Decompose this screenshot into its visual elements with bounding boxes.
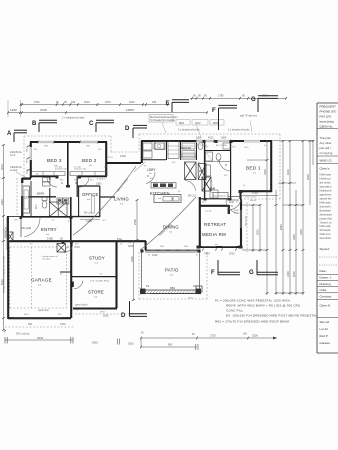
svg-text:3010: 3010 bbox=[0, 164, 4, 170]
svg-text:His/her pr: His/her pr bbox=[320, 177, 331, 181]
garage eave dashed bottom bbox=[5, 326, 75, 328]
svg-text:2016: 2016 bbox=[103, 315, 109, 318]
bottom dim left row line bbox=[5, 339, 74, 341]
eave dashed top right bbox=[139, 133, 280, 135]
svg-text:7404: 7404 bbox=[204, 253, 210, 256]
retreat corner door leaf bbox=[228, 196, 242, 198]
svg-text:DINING: DINING bbox=[163, 225, 179, 230]
svg-text:2134: 2134 bbox=[120, 154, 126, 158]
svg-text:add TV wire red: add TV wire red bbox=[240, 115, 258, 118]
svg-text:1560: 1560 bbox=[96, 183, 102, 186]
note leader lines bbox=[162, 123, 166, 134]
svg-text:4012: 4012 bbox=[195, 122, 201, 125]
title block top border bbox=[317, 102, 338, 104]
svg-text:WIR: WIR bbox=[209, 187, 216, 191]
svg-text:This plan: This plan bbox=[320, 136, 332, 140]
svg-text:WIND CL: WIND CL bbox=[320, 159, 333, 163]
svg-text:G: G bbox=[249, 270, 254, 276]
svg-text:WC: WC bbox=[199, 169, 205, 173]
right dim top ticks bbox=[266, 140, 269, 142]
svg-text:5.980: 5.980 bbox=[47, 238, 54, 241]
top dimension row 2 ticks bbox=[7, 111, 9, 114]
store eave dashed bottom bbox=[75, 313, 145, 315]
svg-text:I/We ackn: I/We ackn bbox=[320, 201, 332, 205]
svg-text:Date:: Date: bbox=[320, 269, 327, 273]
bed1 bottom wall bbox=[240, 190, 272, 192]
kitchen block left wall bbox=[141, 141, 143, 163]
svg-text:3010: 3010 bbox=[256, 229, 260, 235]
retreat bottom window ticks bbox=[202, 248, 203, 250]
patio post p1 right bbox=[196, 289, 202, 295]
svg-text:Garage beam is: Garage beam is bbox=[42, 255, 58, 258]
window tag boxes bed1 bbox=[176, 120, 190, 126]
svg-text:2702: 2702 bbox=[229, 253, 235, 256]
top exterior wall bed1 bbox=[204, 140, 272, 142]
patio dashed left bbox=[138, 252, 140, 299]
bed3-bed2 divider wall bbox=[67, 142, 69, 186]
laundry tub box bbox=[154, 143, 164, 149]
bath window left wall bbox=[21, 183, 24, 196]
svg-text:panel door: panel door bbox=[38, 309, 49, 312]
svg-text:agreemen: agreemen bbox=[320, 193, 332, 197]
porch pier hatched bbox=[8, 232, 14, 241]
svg-text:mk: mk bbox=[149, 173, 152, 175]
office desk strip bbox=[92, 196, 95, 213]
powder toilet oval bbox=[198, 143, 203, 150]
kitchen hatched pantry boxes bbox=[185, 162, 197, 180]
svg-text:described: described bbox=[320, 236, 332, 240]
ens vanity bbox=[206, 165, 211, 176]
svg-text:PHONE (07): PHONE (07) bbox=[320, 110, 337, 114]
svg-text:2400: 2400 bbox=[286, 271, 290, 277]
bath tub alcove divider bbox=[30, 181, 32, 216]
inner dim living vertical bbox=[136, 200, 138, 240]
svg-text:90 L/U: 90 L/U bbox=[84, 211, 92, 215]
entry door arc bbox=[24, 218, 40, 237]
svg-text:1806: 1806 bbox=[179, 122, 185, 125]
svg-text:1806: 1806 bbox=[213, 122, 219, 125]
svg-text:Site Ad: Site Ad bbox=[320, 320, 330, 324]
svg-text:4010: 4010 bbox=[286, 169, 290, 175]
svg-text:RB1: RB1 bbox=[170, 286, 176, 290]
svg-text:8430: 8430 bbox=[279, 224, 283, 230]
svg-text:F: F bbox=[212, 108, 216, 114]
kitchen bench row bbox=[151, 183, 176, 189]
bed3 window top bbox=[38, 140, 54, 143]
bath washbasin boxes bbox=[43, 178, 51, 182]
svg-text:u/s nib: u/s nib bbox=[205, 211, 212, 213]
svg-text:MEDIA RM: MEDIA RM bbox=[202, 232, 226, 237]
ens extra fixtures bbox=[223, 143, 230, 149]
right dim bottom ticks bbox=[266, 292, 269, 294]
svg-text:1790: 1790 bbox=[218, 95, 224, 98]
patio left post line bbox=[141, 252, 143, 293]
store bottom wall bbox=[73, 307, 117, 309]
pantry divider bbox=[180, 141, 182, 160]
raked ceiling leader living bbox=[73, 166, 136, 235]
svg-text:part will r: part will r bbox=[320, 146, 331, 150]
svg-text:F: F bbox=[211, 270, 215, 276]
garage corner hatched box bbox=[57, 244, 66, 253]
bed1 windows top bbox=[196, 139, 214, 142]
svg-text:I/We ackn: I/We ackn bbox=[320, 224, 332, 228]
svg-text:illustrated: illustrated bbox=[320, 209, 332, 213]
powder door arc bbox=[185, 181, 196, 191]
svg-text:D: D bbox=[121, 313, 126, 319]
eave dashed right side bbox=[279, 134, 281, 199]
svg-text:90 L/U: 90 L/U bbox=[188, 194, 196, 198]
store-study right wall bbox=[115, 241, 117, 308]
svg-text:1806: 1806 bbox=[221, 137, 227, 140]
svg-text:Drawing: Drawing bbox=[320, 282, 331, 286]
svg-text:6010: 6010 bbox=[0, 279, 4, 285]
bed1 robe step wall bbox=[239, 191, 241, 199]
svg-text:Schedule: Schedule bbox=[320, 228, 331, 232]
top dimension row 1 left line bbox=[20, 104, 168, 106]
svg-text:2702: 2702 bbox=[252, 191, 258, 195]
svg-text:accurate a: accurate a bbox=[320, 185, 333, 189]
svg-text:4.10 screen: 4.10 screen bbox=[245, 196, 257, 199]
bottom dim right rowB ticks bbox=[195, 344, 197, 350]
garage right wall bbox=[70, 241, 72, 318]
svg-text:KITCHEN: KITCHEN bbox=[150, 191, 170, 196]
svg-text:2 x window s/d units: 2 x window s/d units bbox=[178, 129, 200, 132]
svg-text:1350 a2: 1350 a2 bbox=[234, 213, 243, 215]
bath left wall bbox=[21, 178, 23, 217]
svg-text:4000: 4000 bbox=[306, 174, 310, 180]
svg-text:1220: 1220 bbox=[128, 246, 134, 248]
entry top wall bbox=[20, 216, 70, 218]
linen boxes hall bbox=[57, 198, 63, 204]
office top wall bbox=[77, 185, 100, 187]
svg-text:400 W: 400 W bbox=[250, 200, 257, 202]
svg-text:signed her: signed her bbox=[320, 197, 332, 201]
eave dashed recess bottom bbox=[111, 151, 139, 153]
svg-text:1010: 1010 bbox=[129, 101, 135, 104]
svg-text:(panel door): (panel door) bbox=[75, 304, 88, 307]
svg-text:910: 910 bbox=[71, 101, 76, 104]
kitchen inner wall laundry bbox=[166, 141, 168, 160]
wir-hall bottom wall bbox=[199, 198, 231, 200]
svg-text:2140: 2140 bbox=[152, 254, 158, 257]
svg-text:W08: W08 bbox=[234, 210, 239, 212]
svg-text:4000: 4000 bbox=[292, 271, 296, 277]
svg-text:12 ft. Satellite Filing: 12 ft. Satellite Filing bbox=[90, 280, 110, 283]
svg-text:BATH: BATH bbox=[37, 192, 44, 196]
svg-text:BED 2: BED 2 bbox=[82, 158, 97, 163]
retreat bottom windows bbox=[202, 246, 216, 248]
title block divider 7 bbox=[317, 292, 338, 294]
bed2 window top bbox=[80, 140, 98, 143]
patio post p1 left bbox=[140, 289, 146, 295]
svg-text:3200: 3200 bbox=[252, 334, 258, 338]
svg-text:4010: 4010 bbox=[92, 341, 98, 345]
title block dotted line 1 bbox=[319, 256, 337, 258]
bottom dim right rowB line bbox=[141, 346, 197, 348]
svg-text:ponse that: ponse that bbox=[320, 217, 332, 221]
svg-text:D: D bbox=[125, 126, 130, 132]
svg-text:940: 940 bbox=[28, 323, 33, 326]
svg-text:W09 1206: W09 1206 bbox=[246, 215, 248, 226]
study door arc bbox=[64, 244, 73, 252]
svg-text:STORE: STORE bbox=[88, 290, 104, 295]
svg-text:2 x window s/d units: 2 x window s/d units bbox=[228, 129, 250, 132]
eave dashed top left bbox=[24, 135, 111, 137]
svg-text:shall over: shall over bbox=[320, 232, 331, 236]
svg-text:2400: 2400 bbox=[263, 169, 267, 175]
office left wall bbox=[78, 186, 80, 217]
kitchen block top wall bbox=[141, 140, 204, 142]
inner dim study right bbox=[133, 241, 135, 300]
retreat top wall bbox=[199, 205, 229, 207]
retreat right wall bbox=[240, 199, 242, 247]
garage door opening thin lines bbox=[14, 317, 62, 319]
bed rooms bottom wall bbox=[30, 175, 57, 177]
svg-text:ENTRY: ENTRY bbox=[41, 227, 57, 232]
top dimension row 2 line bbox=[8, 112, 207, 114]
office bottom wall bbox=[70, 216, 100, 218]
svg-text:CONC FILL: CONC FILL bbox=[226, 309, 243, 313]
svg-text:premium robe: premium robe bbox=[74, 169, 87, 171]
retreat top door jamb bbox=[228, 205, 230, 214]
kitchen diag leader bbox=[134, 162, 145, 172]
svg-text:RB1 = 275x75 F14 DRESSED HWD R: RB1 = 275x75 F14 DRESSED HWD ROOF BEAM bbox=[215, 320, 289, 324]
svg-text:1510: 1510 bbox=[84, 101, 90, 104]
laundry fixtures bbox=[143, 143, 152, 150]
svg-text:2 door rec'ss: 2 door rec'ss bbox=[36, 174, 49, 177]
kitchen block right wall bbox=[204, 141, 206, 199]
svg-text:www.desig: www.desig bbox=[320, 120, 335, 124]
kitchen island bench bbox=[154, 195, 181, 203]
svg-text:5440: 5440 bbox=[37, 336, 44, 340]
store niche wall bbox=[60, 271, 71, 273]
svg-text:8 sq/ft m: 8 sq/ft m bbox=[97, 178, 106, 181]
bath block left wall bbox=[21, 178, 23, 216]
bottom dim right rowA ticks bbox=[140, 337, 142, 340]
garage interior dashed rect bbox=[9, 247, 11, 308]
svg-text:2742: 2742 bbox=[34, 101, 40, 104]
top dimension row 1 right ticks bbox=[191, 97, 193, 100]
ens shower bbox=[206, 152, 213, 161]
top dimension row 2 extension verticals bbox=[7, 100, 9, 117]
top dimension row 1 left ticks bbox=[20, 103, 22, 106]
svg-text:RAC onto lac: RAC onto lac bbox=[16, 333, 30, 336]
window marks dining bottom bbox=[150, 249, 156, 251]
svg-text:QBSA No.: QBSA No. bbox=[320, 125, 334, 129]
retreat left wall bbox=[199, 197, 201, 248]
wir door arc bbox=[226, 201, 238, 214]
svg-text:Red P: Red P bbox=[320, 334, 328, 338]
study-store divider wall bbox=[71, 276, 117, 278]
svg-text:2370: 2370 bbox=[105, 101, 111, 104]
porch front edge bbox=[8, 216, 23, 218]
svg-text:3400: 3400 bbox=[292, 234, 296, 240]
office nib wall bbox=[100, 196, 115, 198]
svg-text:E: E bbox=[166, 101, 170, 107]
svg-text:'Owner' su: 'Owner' su bbox=[320, 221, 333, 225]
svg-text:2110: 2110 bbox=[229, 202, 235, 204]
title block bottom border bbox=[317, 352, 338, 354]
svg-text:910: 910 bbox=[152, 101, 157, 104]
svg-text:3410: 3410 bbox=[0, 199, 4, 205]
svg-text:Checked: Checked bbox=[320, 295, 332, 299]
bath wc toilet bbox=[42, 197, 47, 201]
svg-text:2700: 2700 bbox=[60, 323, 66, 326]
step wall to patio bbox=[145, 241, 147, 250]
bed2 door arc bbox=[79, 177, 89, 187]
right dim horizontal connectors bbox=[242, 195, 278, 197]
svg-text:st rot: st rot bbox=[10, 154, 16, 157]
ldry door arc bbox=[146, 172, 155, 184]
svg-text:GARAGE: GARAGE bbox=[31, 278, 52, 283]
svg-text:P1: P1 bbox=[146, 284, 150, 288]
left dimension ticks bbox=[2, 144, 5, 146]
bath top step wall bbox=[22, 178, 31, 180]
hall-office wall vertical bbox=[76, 176, 78, 197]
svg-text:st stud: st stud bbox=[10, 169, 18, 172]
raked ceiling leader dining bbox=[140, 197, 196, 250]
kitchen extra shelf lines bbox=[168, 149, 179, 151]
right dim verticals bbox=[252, 205, 254, 252]
svg-text:900: 900 bbox=[168, 344, 173, 347]
bed1 right exterior wall bbox=[270, 141, 272, 192]
garage left exterior wall bbox=[7, 241, 9, 319]
bed3 window left wall bbox=[29, 147, 32, 160]
bottom dim vertical connector bbox=[140, 338, 142, 347]
svg-text:A: A bbox=[7, 131, 12, 137]
svg-text:of copying: of copying bbox=[320, 151, 333, 155]
door jamb blobs bbox=[56, 176, 59, 179]
svg-text:I/We have: I/We have bbox=[320, 173, 332, 177]
top dimension row 1 right line bbox=[190, 97, 286, 99]
svg-text:Drawn: 1: Drawn: 1 bbox=[320, 276, 332, 280]
svg-text:2 x window s/d units: 2 x window s/d units bbox=[62, 117, 85, 120]
eave dashed retreat right bbox=[246, 202, 248, 252]
svg-text:G: G bbox=[251, 97, 256, 103]
svg-text:2590: 2590 bbox=[133, 219, 137, 225]
entry-living wall bbox=[70, 197, 72, 241]
eave dashed recess right bbox=[138, 134, 140, 152]
ens block top wall bbox=[205, 150, 231, 152]
svg-text:FAX (07): FAX (07) bbox=[320, 115, 332, 119]
title block dotted line 2 bbox=[319, 264, 337, 266]
svg-text:4740: 4740 bbox=[40, 108, 47, 112]
title block divider 9 bbox=[317, 317, 338, 319]
svg-text:0913: 0913 bbox=[27, 146, 29, 152]
bath tub bbox=[23, 186, 30, 213]
svg-text:PANTRY: PANTRY bbox=[181, 146, 192, 150]
ens wc walls bbox=[196, 141, 198, 160]
svg-text:190 a: 190 a bbox=[188, 297, 194, 299]
svg-text:LDRY: LDRY bbox=[147, 168, 156, 172]
svg-text:Nothing th: Nothing th bbox=[320, 189, 332, 193]
retreat bottom wall bbox=[199, 246, 241, 248]
svg-text:Lot 12: Lot 12 bbox=[320, 327, 329, 331]
ens toilet oval bbox=[216, 154, 221, 161]
svg-text:B: B bbox=[32, 121, 37, 127]
bed2 right exterior wall bbox=[105, 142, 107, 176]
svg-text:0913: 0913 bbox=[27, 168, 29, 174]
svg-text:REINF. WITH 4N12 BARS + R6 LIG: REINF. WITH 4N12 BARS + R6 LIGS @ 300 CR… bbox=[226, 304, 300, 308]
retreat corner door arc bbox=[229, 197, 242, 210]
svg-text:and wish t: and wish t bbox=[320, 205, 332, 209]
title block divider 6 bbox=[317, 286, 338, 288]
svg-text:P1 = 290x290 CONC WAS PEDE: P1 = 290x290 CONC WAS PEDESTAL 1200 HIGH bbox=[215, 299, 290, 303]
svg-text:mk: mk bbox=[211, 192, 214, 194]
patio dashed bottom bbox=[139, 298, 207, 300]
title block divider 8 bbox=[317, 299, 338, 301]
svg-text:premium robe: premium robe bbox=[55, 169, 68, 171]
patio dashed right bbox=[206, 252, 208, 299]
bath wc divider bbox=[49, 177, 51, 180]
svg-text:demonstra: demonstra bbox=[320, 213, 333, 217]
svg-text:BED 3: BED 3 bbox=[47, 158, 62, 163]
svg-text:1806: 1806 bbox=[196, 137, 202, 140]
ens door arc bbox=[219, 159, 230, 171]
svg-text:W.C: W.C bbox=[35, 204, 38, 209]
eave dashed bed1 bottom bbox=[244, 198, 280, 200]
left dimension line bbox=[3, 145, 5, 330]
title block divider 3 bbox=[317, 163, 338, 165]
svg-text:are certai: are certai bbox=[320, 181, 331, 185]
svg-text:P.9a: P.9a bbox=[117, 238, 122, 241]
bath block top step wall bbox=[22, 177, 31, 179]
svg-text:breast panel: breast panel bbox=[214, 195, 227, 198]
pantry text strip boxes bbox=[181, 154, 196, 160]
garage dashed bay divider bbox=[31, 247, 33, 308]
hall hatched box bbox=[50, 202, 68, 217]
door swing small circles bbox=[61, 182, 62, 183]
wir robe hatch bbox=[202, 177, 211, 191]
entry left wall below porch bbox=[7, 216, 9, 241]
svg-text:EX. 150x150 F14 DRESSED HWD PO: EX. 150x150 F14 DRESSED HWD POST ABOVE P… bbox=[226, 314, 317, 318]
svg-text:To Powder Rm Ceiling: To Powder Rm Ceiling bbox=[150, 119, 175, 122]
right dim intermediate ticks bbox=[282, 182, 285, 184]
pantry shelves bbox=[182, 143, 195, 149]
top exterior wall bed3-bed2 bbox=[30, 141, 107, 143]
svg-text:2590: 2590 bbox=[130, 256, 134, 262]
svg-text:LIVING: LIVING bbox=[114, 197, 129, 202]
svg-text:Outa:: Outa: bbox=[320, 288, 328, 292]
svg-text:11870: 11870 bbox=[126, 108, 134, 112]
title block divider 1 bbox=[317, 128, 338, 130]
svg-text:not open: not open bbox=[42, 258, 51, 261]
office right wall bbox=[99, 186, 101, 217]
patio right post line bbox=[199, 252, 201, 293]
svg-text:STUDY: STUDY bbox=[89, 256, 105, 261]
rear p1 post and beam bbox=[196, 286, 202, 292]
title block left border bbox=[316, 103, 318, 353]
svg-text:Any other: Any other bbox=[320, 141, 332, 145]
svg-text:Client's: Client's bbox=[320, 167, 330, 171]
svg-text:Garawe: Garawe bbox=[320, 341, 331, 345]
bed1 robe breast panel bbox=[213, 193, 228, 199]
retreat window right wall bbox=[239, 210, 241, 228]
study-garage top wall bbox=[8, 240, 146, 242]
store door jamb bbox=[71, 282, 74, 288]
svg-text:RETREAT: RETREAT bbox=[204, 222, 226, 227]
bed3 bed2 robe band bbox=[31, 172, 65, 176]
title block divider 5 bbox=[317, 280, 338, 282]
ens-wir divider wall bbox=[230, 143, 232, 199]
left inner dim line porch bbox=[6, 218, 8, 250]
svg-text:2710: 2710 bbox=[210, 334, 216, 338]
eave dashed recess left bbox=[110, 136, 112, 152]
right dim mid ticks bbox=[252, 204, 255, 206]
eave dashed left side bbox=[23, 136, 25, 178]
patio beam rb1 hatched bbox=[141, 290, 200, 293]
hall bottom wall left bbox=[28, 196, 56, 198]
